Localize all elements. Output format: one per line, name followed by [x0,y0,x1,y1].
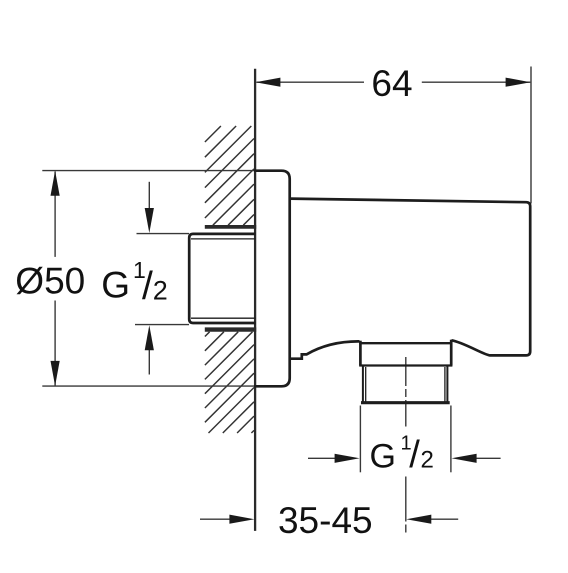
svg-text:/: / [142,265,153,308]
svg-text:G: G [101,264,130,305]
svg-text:/: / [409,434,420,476]
svg-text:2: 2 [421,447,434,474]
svg-text:G: G [370,437,396,475]
svg-text:64: 64 [371,63,412,104]
svg-text:2: 2 [153,275,168,305]
svg-text:Ø50: Ø50 [15,260,85,301]
svg-text:35-45: 35-45 [278,500,373,541]
